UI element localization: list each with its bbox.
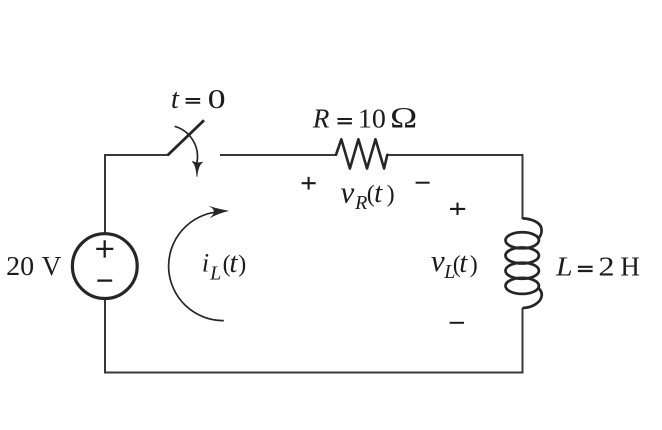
svg-text:R: R (312, 104, 330, 134)
switch SW1 blade (168, 120, 204, 155)
svg-text:L: L (555, 252, 573, 282)
voltage source plus terminal (96, 240, 113, 257)
svg-text:v: v (431, 243, 445, 278)
inductor L coil top hook (523, 218, 542, 238)
svg-text:i: i (202, 249, 209, 278)
inductor L coil bottom hook (523, 288, 542, 308)
resistor label equals sign (338, 119, 352, 123)
svg-text:v: v (341, 174, 355, 209)
voltage source minus terminal (97, 279, 112, 281)
wire top-middle segment (switch to resistor) (220, 154, 336, 156)
svg-text:L: L (209, 263, 221, 285)
wire right vertical lower (522, 308, 524, 374)
switch SW1 closing arc (175, 126, 198, 162)
wire left vertical lower (104, 298, 106, 373)
switch label equals sign (186, 99, 201, 103)
svg-text:20V: 20V (6, 251, 62, 281)
inductor L coil loop 1 (506, 232, 539, 248)
inductor L coil loop 4 (506, 278, 539, 294)
minus sign for vR (416, 182, 430, 184)
voltage source VS circle (72, 234, 137, 299)
svg-text:0: 0 (208, 84, 226, 114)
minus sign for vL (450, 322, 464, 324)
svg-text:2: 2 (598, 252, 614, 282)
wire left vertical upper (104, 154, 106, 235)
inductor L coil loop 3 (506, 263, 539, 279)
wire top-right segment (resistor to corner) (387, 154, 522, 156)
inductor label equals sign (578, 267, 593, 271)
svg-text:(t): (t) (453, 247, 478, 279)
svg-text:R: R (354, 192, 367, 214)
resistor R zigzag (336, 139, 387, 168)
svg-text:Ω: Ω (390, 102, 417, 135)
svg-text:(t): (t) (367, 177, 395, 209)
plus sign for vR (302, 177, 316, 190)
plus sign for vL (450, 203, 465, 215)
wire right vertical upper (522, 154, 524, 219)
svg-text:t: t (171, 83, 180, 115)
current loop arc iL (169, 212, 224, 321)
svg-text:H: H (620, 252, 640, 282)
inductor L coil loop 2 (506, 248, 539, 264)
current loop arrowhead (210, 206, 229, 217)
svg-text:10: 10 (358, 104, 386, 134)
wire bottom segment (104, 372, 523, 374)
switch SW1 arrowhead (192, 161, 202, 176)
svg-text:(t): (t) (223, 247, 247, 279)
wire top-left segment (105, 154, 169, 156)
